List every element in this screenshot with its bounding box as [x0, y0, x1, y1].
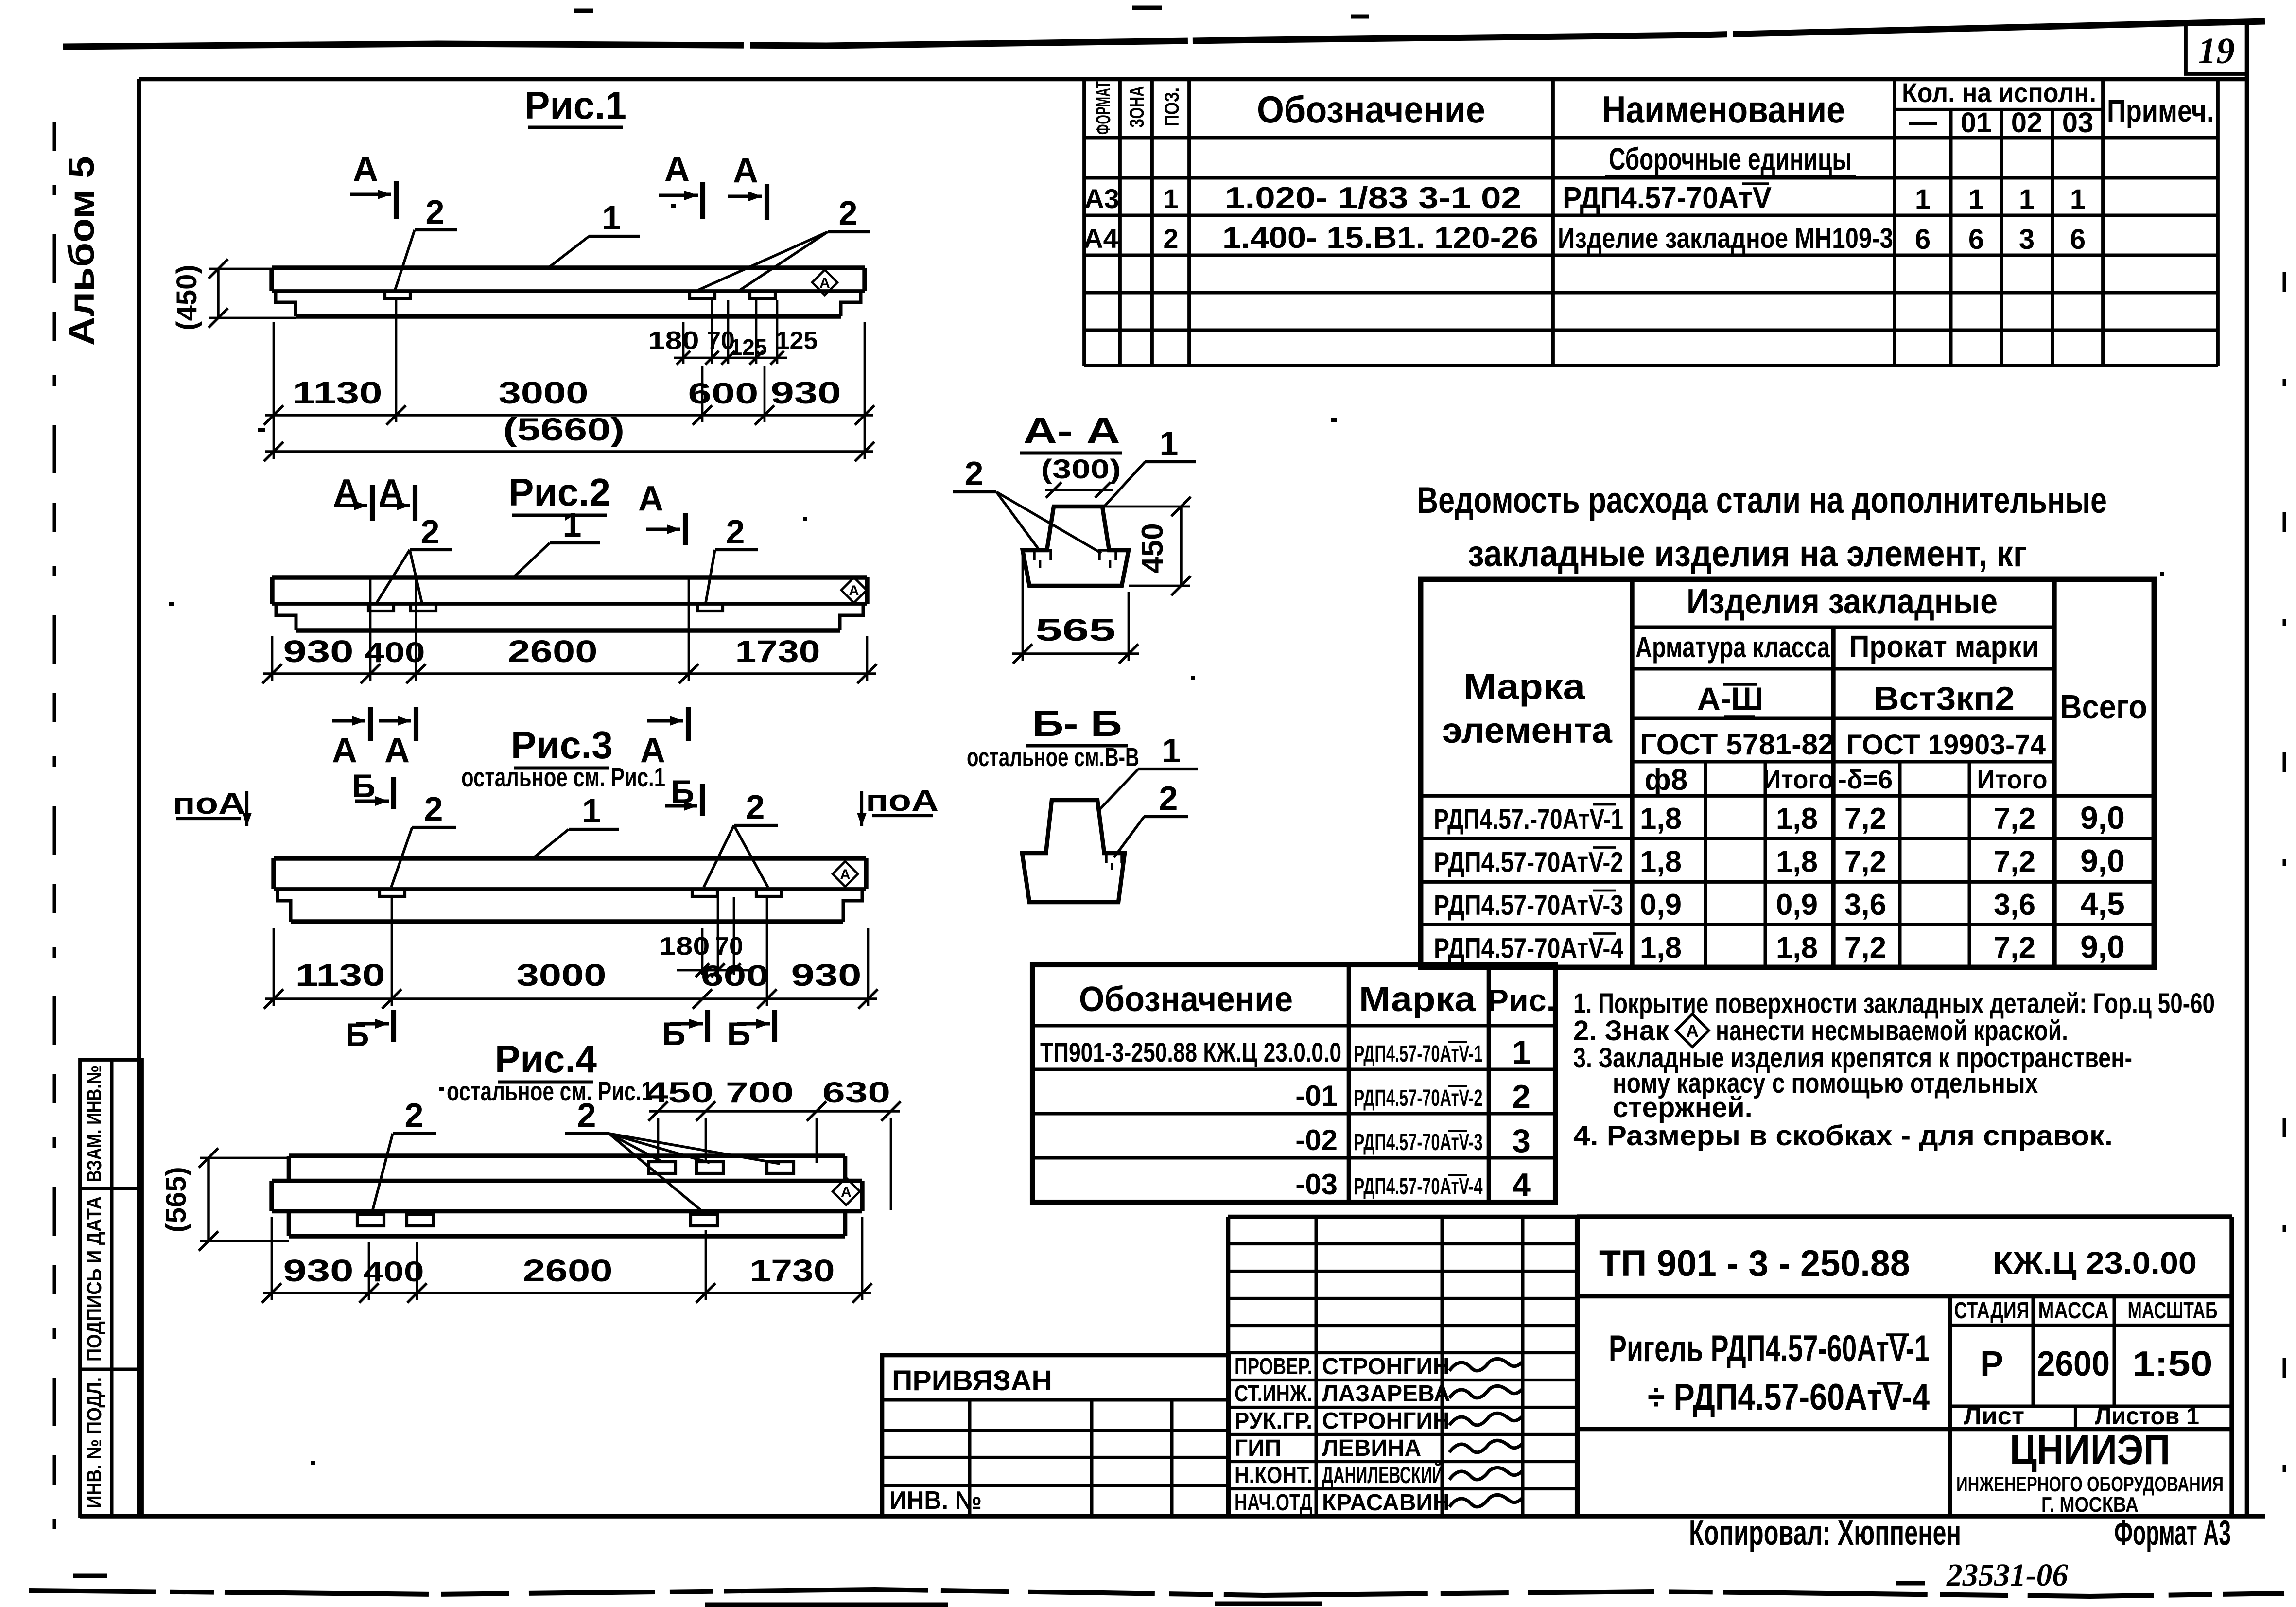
svg-text:(5660): (5660) [503, 411, 625, 447]
svg-text:125: 125 [776, 327, 818, 355]
svg-text:1,8: 1,8 [1776, 845, 1818, 879]
steel table grid [1421, 579, 2154, 967]
svg-text:2600: 2600 [523, 1253, 613, 1288]
svg-text:РДП4.57-70АтV: РДП4.57-70АтV [1563, 181, 1772, 215]
svg-text:элемента: элемента [1442, 710, 1613, 751]
svg-text:2: 2 [726, 513, 745, 551]
steel table data row 2 [1434, 843, 2125, 879]
fig4 plates bottom strip [357, 1214, 384, 1226]
fig4 dim 565 vertical [160, 1148, 289, 1251]
svg-text:Н.КОНТ.: Н.КОНТ. [1235, 1463, 1312, 1488]
svg-text:РДП4.57-70АтV-4: РДП4.57-70АтV-4 [1354, 1174, 1483, 1200]
svg-text:7,2: 7,2 [1844, 802, 1886, 836]
svg-text:400: 400 [365, 637, 425, 668]
svg-text:0,9: 0,9 [1776, 888, 1818, 922]
svg-text:-01: -01 [1295, 1080, 1338, 1112]
svg-text:А: А [841, 1184, 852, 1200]
svg-text:125: 125 [730, 334, 767, 360]
svg-text:7,2: 7,2 [1844, 845, 1886, 879]
svg-text:600: 600 [688, 377, 759, 410]
fig1 beam outline [272, 268, 865, 316]
svg-text:поА: поА [173, 787, 245, 821]
parts table grid [1084, 79, 2218, 366]
svg-text:СТ.ИНЖ.: СТ.ИНЖ. [1235, 1381, 1312, 1407]
svg-text:2: 2 [424, 790, 443, 828]
parts table row A3 [1084, 181, 2086, 215]
svg-text:3,6: 3,6 [1994, 888, 2035, 922]
svg-text:СТРОНГИН: СТРОНГИН [1322, 1408, 1450, 1434]
svg-text:Листов 1: Листов 1 [2095, 1402, 2199, 1430]
svg-text:А3: А3 [1084, 183, 1119, 214]
svg-text:СТАДИЯ: СТАДИЯ [1954, 1298, 2030, 1324]
svg-text:1: 1 [602, 199, 621, 237]
svg-text:7,2: 7,2 [1844, 931, 1886, 965]
svg-text:Б: Б [727, 1015, 751, 1052]
fig3 quality diamond [833, 861, 858, 887]
mark-fig row 1 [1040, 1034, 1531, 1071]
section A-A dim 450 [1102, 497, 1191, 595]
fig4 dim row 930 400 2600 1730 [262, 1217, 872, 1303]
svg-text:РДП4.57-70АтV-3: РДП4.57-70АтV-3 [1434, 890, 1623, 921]
svg-text:Ригель РДП4.57-60АтV-1: Ригель РДП4.57-60АтV-1 [1609, 1328, 1930, 1369]
page number box 19 [2186, 23, 2247, 74]
svg-text:Б: Б [346, 1016, 369, 1053]
svg-text:1,8: 1,8 [1776, 802, 1818, 836]
svg-text:ГИП: ГИП [1235, 1435, 1281, 1461]
signature rows text [1235, 1354, 1450, 1516]
svg-text:Б: Б [662, 1015, 686, 1052]
svg-text:(565): (565) [160, 1167, 192, 1232]
svg-text:600: 600 [701, 960, 769, 992]
svg-text:Ведомость расхода стали на доп: Ведомость расхода стали на дополнительны… [1417, 480, 2107, 521]
fig3 section mark B left [352, 768, 394, 809]
mark-fig row 4 [1295, 1167, 1531, 1204]
notes text [1573, 988, 2215, 1152]
svg-text:2: 2 [965, 454, 984, 492]
svg-text:Б: Б [352, 768, 376, 804]
svg-text:70: 70 [715, 932, 743, 961]
svg-text:Обозначение: Обозначение [1257, 88, 1485, 131]
svg-text:180: 180 [648, 327, 699, 355]
svg-text:ЦНИИЭП: ЦНИИЭП [2010, 1427, 2170, 1473]
svg-text:1: 1 [563, 506, 582, 544]
svg-text:1: 1 [2070, 184, 2086, 215]
svg-text:1730: 1730 [735, 634, 820, 669]
mark-fig table grid [1032, 965, 1555, 1202]
svg-text:ДАНИЛЕВСКИЙ: ДАНИЛЕВСКИЙ [1322, 1462, 1444, 1488]
svg-text:СТРОНГИН: СТРОНГИН [1322, 1354, 1450, 1380]
svg-text:Копировал: Хюппенен: Копировал: Хюппенен [1689, 1514, 1961, 1553]
svg-text:1: 1 [582, 792, 601, 830]
mark-fig row 2 [1295, 1078, 1531, 1115]
svg-text:180: 180 [659, 932, 710, 961]
parts table subheaders [1909, 106, 2093, 139]
svg-text:2: 2 [421, 513, 440, 551]
bottom scan noise line [29, 1590, 2284, 1596]
svg-text:19: 19 [2198, 31, 2235, 71]
svg-text:2: 2 [1159, 779, 1178, 817]
svg-text:А: А [849, 583, 859, 599]
svg-text:3: 3 [1512, 1122, 1531, 1159]
svg-text:КРАСАВИН: КРАСАВИН [1322, 1490, 1450, 1516]
svg-text:7,2: 7,2 [1994, 802, 2035, 836]
section A-A shape [1023, 507, 1129, 586]
svg-text:ПОДПИСЬ И ДАТА: ПОДПИСЬ И ДАТА [83, 1196, 105, 1362]
svg-text:Г. МОСКВА: Г. МОСКВА [2041, 1493, 2139, 1517]
steel table data row 3 [1434, 886, 2125, 922]
stadia header [1954, 1298, 2218, 1324]
svg-text:Всего: Всего [2060, 688, 2147, 726]
svg-text:МАСШТАБ: МАСШТАБ [2128, 1298, 2218, 1324]
svg-text:2: 2 [1163, 223, 1178, 254]
fig1 dim 450 vertical [171, 259, 296, 331]
section A-A dim 565 [1012, 554, 1139, 664]
note diamond mark [1676, 1014, 1709, 1047]
svg-text:930: 930 [283, 1253, 354, 1288]
fig4 plates top strip [649, 1162, 676, 1173]
svg-text:ИНВ. № ПОДЛ.: ИНВ. № ПОДЛ. [83, 1377, 105, 1508]
svg-text:—: — [1909, 106, 1937, 138]
fig1 dim 5660 overall [264, 411, 874, 461]
svg-text:-δ=6: -δ=6 [1838, 765, 1893, 794]
svg-text:400: 400 [364, 1256, 424, 1288]
svg-text:Марка: Марка [1359, 980, 1476, 1019]
top scan noise line [63, 21, 2265, 47]
svg-text:А: А [1686, 1021, 1699, 1041]
right page edge dashed line [2283, 272, 2286, 1507]
svg-text:А-Ш: А-Ш [1697, 681, 1763, 716]
svg-text:закладные изделия на элемен: закладные изделия на элемент, кг [1468, 533, 2027, 575]
svg-text:А: А [840, 867, 851, 883]
svg-text:1730: 1730 [750, 1253, 835, 1288]
svg-text:ТП 901 - 3 - 250.88: ТП 901 - 3 - 250.88 [1599, 1243, 1910, 1284]
svg-text:1:50: 1:50 [2133, 1345, 2213, 1383]
svg-text:ПРИВЯЗАН: ПРИВЯЗАН [892, 1365, 1052, 1397]
svg-text:ГОСТ 19903-74: ГОСТ 19903-74 [1846, 729, 2046, 761]
svg-text:03: 03 [2062, 107, 2094, 139]
svg-text:6: 6 [1915, 224, 1931, 255]
svg-text:КЖ.Ц 23.0.00: КЖ.Ц 23.0.00 [1993, 1245, 2197, 1280]
svg-text:Р: Р [1980, 1345, 2003, 1383]
svg-text:ИНВ. №: ИНВ. № [889, 1486, 982, 1515]
svg-text:6: 6 [1968, 224, 1984, 255]
title block right frame [1577, 1217, 2232, 1516]
svg-text:А: А [819, 275, 830, 291]
svg-text:Б- Б: Б- Б [1032, 703, 1122, 744]
svg-text:1130: 1130 [296, 958, 385, 993]
svg-text:РУК.ГР.: РУК.ГР. [1235, 1408, 1312, 1434]
svg-text:А: А [664, 150, 690, 189]
signature squiggles [1449, 1359, 1523, 1507]
svg-text:1: 1 [2019, 184, 2035, 215]
svg-text:630: 630 [822, 1076, 890, 1109]
svg-text:700: 700 [726, 1076, 794, 1109]
svg-text:ПОЗ.: ПОЗ. [1160, 87, 1183, 126]
svg-text:А: А [353, 150, 378, 189]
svg-text:1,8: 1,8 [1640, 802, 1682, 836]
svg-text:0,9: 0,9 [1640, 888, 1682, 922]
fig4 quality diamond [833, 1178, 860, 1205]
parts table row A4 [1083, 221, 2086, 255]
steel table subheader row [1645, 763, 2048, 797]
svg-text:РДП4.57-70АтV-2: РДП4.57-70АтV-2 [1354, 1085, 1483, 1111]
svg-text:1: 1 [1160, 424, 1179, 462]
svg-text:Наименование: Наименование [1602, 88, 1845, 131]
svg-text:4: 4 [1512, 1167, 1531, 1204]
fig2 embedded plates [368, 604, 394, 611]
svg-text:7,2: 7,2 [1994, 845, 2035, 879]
svg-text:3000: 3000 [499, 375, 589, 410]
svg-text:1,8: 1,8 [1776, 931, 1818, 965]
svg-text:01: 01 [1961, 107, 1992, 139]
svg-text:1.400- 15.В1. 120-26: 1.400- 15.В1. 120-26 [1222, 221, 1538, 255]
svg-text:1: 1 [1163, 183, 1178, 214]
svg-text:РДП4.57-70АтV-4: РДП4.57-70АтV-4 [1434, 933, 1623, 964]
list row [1964, 1402, 2199, 1430]
svg-text:Изделие закладное МН109-3: Изделие закладное МН109-3 [1558, 223, 1893, 254]
fig3 beam outline [274, 858, 866, 922]
svg-text:Рис.3: Рис.3 [511, 723, 613, 767]
svg-text:Сборочные единицы: Сборочные единицы [1609, 141, 1852, 176]
svg-text:4,5: 4,5 [2080, 886, 2125, 922]
svg-text:1,8: 1,8 [1640, 931, 1682, 965]
svg-text:2: 2 [839, 194, 858, 232]
svg-text:3000: 3000 [517, 958, 607, 993]
svg-text:930: 930 [771, 375, 841, 410]
svg-text:Кол. на исполн.: Кол. на исполн. [1902, 77, 2096, 108]
drawing frame [139, 77, 2247, 82]
svg-text:2: 2 [577, 1096, 596, 1134]
privyazan box [882, 1355, 1229, 1516]
svg-text:Рис.1: Рис.1 [524, 84, 626, 127]
scan specks [169, 206, 2164, 1463]
svg-text:450: 450 [645, 1076, 713, 1109]
steel table data row 4 [1434, 929, 2125, 965]
svg-text:ЛАЗАРЕВА: ЛАЗАРЕВА [1322, 1381, 1450, 1407]
svg-text:Марка: Марка [1463, 666, 1585, 707]
fig2 beam outline [272, 577, 867, 630]
fig3 poA right [857, 784, 939, 826]
svg-text:Изделия закладные: Изделия закладные [1687, 582, 1998, 621]
svg-text:Рис.: Рис. [1487, 983, 1555, 1018]
svg-text:А- А: А- А [1023, 410, 1120, 452]
stadia values [1980, 1345, 2213, 1383]
svg-text:РДП4.57-70АтV-2: РДП4.57-70АтV-2 [1434, 847, 1623, 878]
fig1 dim row 1130 3000 600 930 [264, 298, 874, 459]
svg-text:1: 1 [1162, 732, 1181, 769]
svg-text:9,0: 9,0 [2080, 929, 2125, 965]
fig2 dim row 930 400 2600 1730 [262, 578, 877, 683]
svg-text:Обозначение: Обозначение [1079, 980, 1293, 1019]
svg-text:А: А [384, 731, 410, 770]
svg-text:НАЧ.ОТД: НАЧ.ОТД [1235, 1490, 1312, 1516]
fig3 section mark B right [665, 773, 702, 816]
svg-text:остальное см.В-В: остальное см.В-В [967, 743, 1139, 772]
svg-text:ф8: ф8 [1645, 763, 1688, 797]
svg-text:ГОСТ 5781-82: ГОСТ 5781-82 [1640, 728, 1834, 761]
svg-text:Итого: Итого [1763, 765, 1834, 794]
svg-text:А4: А4 [1083, 223, 1118, 254]
fig1 small dims 180 70 125 125 [648, 300, 818, 365]
svg-text:7,2: 7,2 [1994, 931, 2035, 965]
svg-text:2600: 2600 [508, 634, 598, 669]
svg-text:А: А [733, 151, 758, 190]
svg-text:2: 2 [405, 1096, 424, 1134]
mark-fig table headers [1079, 980, 1555, 1019]
svg-text:1,8: 1,8 [1640, 845, 1682, 879]
svg-text:ЗОНА: ЗОНА [1125, 86, 1148, 128]
svg-text:РДП4.57.-70АтV-1: РДП4.57.-70АтV-1 [1434, 803, 1623, 835]
svg-text:ВЗАМ. ИНВ.№: ВЗАМ. ИНВ.№ [83, 1066, 105, 1182]
fig4 section mark B left [346, 1010, 394, 1053]
svg-text:Прокат марки: Прокат марки [1849, 629, 2039, 664]
svg-text:565: 565 [1036, 612, 1116, 647]
svg-text:ТП901-3-250.88 КЖ.Ц 23.0.0.0: ТП901-3-250.88 КЖ.Ц 23.0.0.0 [1040, 1037, 1341, 1067]
svg-text:2600: 2600 [2037, 1345, 2110, 1383]
svg-text:(300): (300) [1041, 454, 1121, 484]
svg-text:РДП4.57-70АтV-1: РДП4.57-70АтV-1 [1354, 1041, 1483, 1067]
svg-text:Примеч.: Примеч. [2107, 93, 2214, 128]
svg-text:МАССА: МАССА [2038, 1298, 2109, 1324]
section A-A plate marks [1034, 550, 1116, 568]
svg-text:02: 02 [2011, 107, 2043, 139]
mark-fig row 3 [1295, 1122, 1531, 1159]
svg-text:Альбом 5: Альбом 5 [61, 156, 102, 346]
title block signature grid [1228, 1217, 1577, 1516]
svg-text:1: 1 [1915, 184, 1931, 215]
left page edge dashed line [53, 122, 56, 1531]
svg-text:1: 1 [1512, 1034, 1531, 1071]
svg-text:9,0: 9,0 [2080, 843, 2125, 879]
svg-text:1130: 1130 [293, 375, 383, 410]
fig3 small dims 180 70 [659, 897, 751, 977]
svg-text:1.020- 1/83 3-1 02: 1.020- 1/83 3-1 02 [1225, 181, 1521, 215]
svg-text:(450): (450) [171, 264, 203, 330]
section A-A dim 300 [1041, 454, 1121, 498]
fig4 beam plan outline [272, 1156, 862, 1236]
cniiep block [1956, 1427, 2224, 1517]
svg-text:2: 2 [426, 193, 445, 231]
svg-text:23531-06: 23531-06 [1946, 1557, 2068, 1593]
fig1 quality diamond [812, 270, 837, 295]
svg-text:Лист: Лист [1964, 1402, 2024, 1430]
svg-text:РДП4.57-70АтV-3: РДП4.57-70АтV-3 [1354, 1130, 1483, 1155]
svg-text:поА: поА [866, 784, 939, 818]
svg-text:930: 930 [791, 958, 862, 993]
svg-text:Рис.2: Рис.2 [508, 471, 610, 514]
svg-text:1: 1 [1968, 184, 1984, 215]
svg-text:6: 6 [2070, 224, 2086, 255]
svg-text:9,0: 9,0 [2080, 800, 2125, 836]
svg-text:2: 2 [1512, 1078, 1531, 1115]
fig4 section marks B right pair [662, 1010, 775, 1052]
fig3 poA left [173, 787, 252, 826]
section B-B plate mark [1106, 853, 1122, 870]
svg-text:4. Размеры в скобках - для: 4. Размеры в скобках - для справок. [1573, 1120, 2113, 1152]
svg-text:ФОРМАТ: ФОРМАТ [1092, 81, 1114, 135]
svg-text:А: А [638, 479, 663, 518]
fig3 section mark A right upper [640, 707, 688, 770]
svg-text:стержней.: стержней. [1613, 1092, 1753, 1123]
svg-text:ПРОВЕР.: ПРОВЕР. [1235, 1354, 1312, 1380]
svg-text:остальное см. Рис.1: остальное см. Рис.1 [447, 1076, 653, 1106]
svg-text:ЛЕВИНА: ЛЕВИНА [1322, 1435, 1421, 1461]
svg-text:Вст3кп2: Вст3кп2 [1874, 680, 2015, 717]
svg-text:450: 450 [1136, 523, 1169, 573]
fig3 dim row 1130 3000 600 930 [264, 897, 878, 1009]
svg-text:-02: -02 [1295, 1124, 1338, 1156]
svg-text:Арматура класса: Арматура класса [1635, 631, 1830, 664]
svg-text:Итого: Итого [1977, 765, 2048, 794]
fig4 top dims 450 700 630 [645, 1076, 901, 1210]
section B-B shape [1022, 800, 1125, 902]
fig2 quality diamond [841, 577, 867, 603]
svg-text:Формат А3: Формат А3 [2114, 1514, 2231, 1553]
fig1 embedded plates [385, 291, 410, 298]
svg-text:930: 930 [283, 634, 354, 669]
svg-text:остальное см. Рис.1: остальное см. Рис.1 [461, 762, 665, 792]
svg-text:-03: -03 [1295, 1168, 1338, 1201]
svg-text:3,6: 3,6 [1844, 888, 1886, 922]
svg-text:Рис.4: Рис.4 [495, 1037, 597, 1081]
svg-text:А: А [332, 731, 357, 770]
left strip box [80, 1060, 142, 1516]
svg-text:3: 3 [2019, 224, 2035, 255]
svg-text:2: 2 [746, 788, 765, 826]
fig3 section marks A pair upper [332, 707, 416, 770]
steel table data row 1 [1434, 800, 2125, 836]
fig3 embedded plates [380, 889, 405, 896]
